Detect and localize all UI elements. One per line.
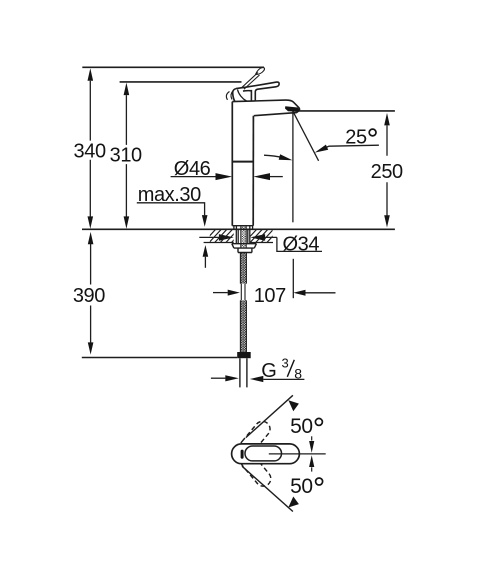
arrow rotation bottom (288, 497, 299, 508)
faucet lever blade (236, 82, 279, 101)
svg-text:3: 3 (281, 356, 288, 371)
label 107 with arrows (213, 285, 336, 307)
faucet spout black tip (285, 106, 299, 112)
deck bottom line left (204, 242, 234, 244)
arrow 250 up (384, 113, 390, 126)
svg-text:107: 107 (254, 285, 286, 307)
svg-text:50: 50 (290, 475, 313, 498)
mounting flange below deck (232, 244, 257, 253)
BOTTOM TOP-VIEW (232, 395, 326, 511)
faucet pivot body (233, 89, 236, 102)
FAUCET MAIN VIEW (226, 67, 299, 229)
arrow 250 down (384, 215, 390, 227)
hose walls in 107 gap (241, 284, 245, 301)
faucet pivot rotation squiggles (226, 90, 233, 100)
deck bottom line right (250, 242, 273, 244)
arrow 310 up (124, 83, 130, 96)
node 25deg slant stream line (293, 111, 319, 161)
wire reference line 310 (120, 81, 242, 83)
faucet head and spout outline (232, 100, 299, 116)
wire 250 top reference line (295, 110, 395, 112)
svg-text:50: 50 (290, 415, 313, 438)
arrow 340 up (88, 68, 94, 81)
braided hose lower segment (240, 300, 247, 352)
deck hatching left (203, 228, 245, 243)
faucet column divider line (232, 161, 253, 163)
arrow 390 down (88, 342, 94, 354)
mounting nut (238, 248, 252, 252)
dimension 250 vertical line (386, 125, 388, 215)
dimension 310 vertical line (125, 95, 127, 217)
threaded shank rod (241, 226, 246, 248)
node 107 extension line (292, 259, 294, 298)
svg-text:250: 250 (371, 161, 403, 183)
braided hose upper segment (240, 253, 247, 284)
deck hatching right (244, 228, 280, 243)
arrow 390 up (88, 232, 94, 244)
faucet column left edge (231, 102, 233, 226)
wire hose end reference line (82, 357, 237, 359)
faucet base verticals (234, 226, 253, 230)
arrows of vertical dimensions (88, 68, 390, 354)
svg-text:G: G (261, 360, 276, 382)
pivot dot (241, 450, 244, 459)
arrow rotation top (288, 400, 299, 411)
diagonal 50deg line bottom (242, 466, 293, 511)
faucet pivot inner curve (238, 90, 247, 102)
label max.30 with leader and arrows (137, 184, 208, 268)
wire countertop deck top line (82, 228, 395, 230)
node 25deg vertical reference line (292, 111, 294, 222)
hose connector nut (237, 352, 251, 358)
svg-text:310: 310 (110, 145, 142, 167)
deck cross-section (203, 228, 280, 243)
faucet column bottom line (232, 225, 253, 227)
connection pipe G3/8 (240, 358, 247, 387)
faucet lever post left edge (243, 90, 251, 101)
shank tube walls in deck (236, 229, 250, 243)
label Ø46 with arrows (171, 158, 283, 180)
wire top reference line 340 (82, 66, 264, 68)
handle ghost rotated down 50deg dashed (238, 450, 274, 489)
faucet lever ghost raised strokes (242, 73, 260, 90)
faucet column right edge (252, 116, 254, 226)
handle ghost rotated up 50deg dashed (237, 418, 273, 457)
label 25deg with leader arrow and curved arrow (264, 127, 379, 161)
diagonal 50deg line top (246, 395, 293, 437)
handle inner capsule (245, 446, 282, 461)
label G 3/8 with arrows (211, 356, 305, 383)
body outer capsule (232, 444, 300, 464)
arrow 310 down (124, 216, 130, 228)
svg-text:390: 390 (73, 285, 105, 307)
arrow 340 down (88, 216, 94, 228)
svg-text:Ø34: Ø34 (282, 233, 319, 255)
center line (269, 453, 326, 455)
svg-text:340: 340 (74, 141, 106, 163)
svg-text:8: 8 (294, 366, 302, 382)
dimension 390 vertical line (90, 244, 92, 343)
angle arrows pair (311, 436, 313, 440)
label Ø34 with arrows and leader (199, 233, 322, 255)
faucet lever ghost tip curl (256, 67, 265, 74)
dimension 340 vertical line (89, 81, 91, 217)
